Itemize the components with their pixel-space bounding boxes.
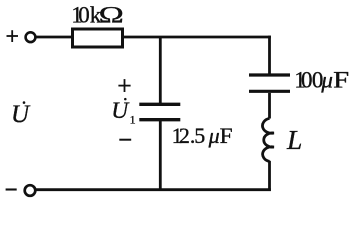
plus sign middle xyxy=(118,79,130,92)
wire cap to coil xyxy=(268,93,271,119)
minus sign left terminal xyxy=(6,188,17,190)
plus sign left terminal xyxy=(7,30,19,42)
bottom wire xyxy=(36,188,271,191)
capacitor C1 12.5uF plates xyxy=(139,103,180,106)
inductor L coil xyxy=(262,118,273,161)
svg-text:00: 00 xyxy=(301,68,323,93)
wire coil to bottom xyxy=(268,161,271,191)
svg-text:2: 2 xyxy=(179,123,190,148)
svg-text:U: U xyxy=(11,101,31,128)
svg-text:Ω: Ω xyxy=(99,3,124,28)
wire right branch upper xyxy=(268,36,271,74)
wire middle branch upper xyxy=(159,37,162,103)
svg-text:F: F xyxy=(333,68,349,93)
wire terminal to resistor xyxy=(36,36,72,39)
svg-text:μ: μ xyxy=(320,68,333,93)
minus sign middle xyxy=(119,139,131,141)
wire resistor to right corner xyxy=(124,36,271,39)
svg-text:5: 5 xyxy=(194,123,205,148)
resistor R 10k ohm xyxy=(73,29,123,47)
terminal bottom-left xyxy=(25,185,36,196)
capacitor C2 100uF plates xyxy=(249,73,290,76)
wire middle branch lower xyxy=(159,121,162,190)
svg-text:μ: μ xyxy=(208,123,220,148)
terminal top-left xyxy=(26,32,36,42)
svg-text:F: F xyxy=(220,123,233,148)
svg-text:U: U xyxy=(111,98,130,124)
svg-text:L: L xyxy=(286,124,302,155)
svg-text:1: 1 xyxy=(130,112,136,126)
